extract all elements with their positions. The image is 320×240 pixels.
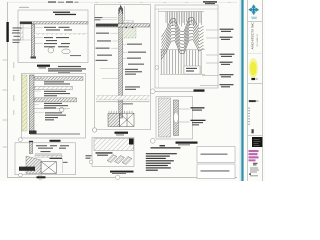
- detail B floor line: [30, 133, 80, 135]
- logo star: [248, 4, 259, 15]
- detail D title scale: [116, 134, 124, 137]
- detail A box: [18, 10, 88, 63]
- stamp box 2 text: [201, 170, 230, 171]
- detail E top-right label: [203, 1, 217, 4]
- detail G left labels: [86, 155, 92, 159]
- teal line halo: [240, 0, 242, 181]
- detail E label box: [184, 66, 200, 74]
- detail E title text: [194, 89, 205, 91]
- detail A top labels: [53, 12, 76, 16]
- pink sheet title rows: [249, 150, 259, 161]
- detail A title scale: [39, 67, 47, 68]
- detail D bolts: [126, 27, 134, 29]
- detail B sheathing: [22, 75, 27, 131]
- detail A column: [31, 24, 34, 58]
- detail A ceiling hatch: [35, 34, 88, 35]
- detail D roof dark run: [96, 24, 118, 27]
- detail E vertical planks: [161, 50, 201, 74]
- detail B base angle: [29, 131, 37, 135]
- detail B balloon: [59, 107, 64, 112]
- detail F arc: [174, 112, 179, 123]
- detail B leaders: [34, 79, 44, 113]
- detail E divider: [160, 49, 205, 51]
- detail F wall hatch: [159, 98, 171, 137]
- detail D roof band: [96, 24, 150, 27]
- detail B labels row group 4: [45, 112, 66, 120]
- bottom frame hole circle 2: [116, 175, 120, 179]
- detail G deck hatch: [94, 139, 134, 151]
- frame left line: [7, 2, 9, 178]
- notes rows: [146, 153, 177, 171]
- detail D sill hatch: [108, 113, 120, 126]
- detail A left labels: [12, 27, 22, 43]
- detail D column: [119, 8, 123, 118]
- detail C mid labels: [50, 158, 63, 159]
- stamp box 2: [197, 164, 235, 179]
- detail G title scale: [112, 172, 126, 175]
- detail D x-panel: [120, 113, 135, 126]
- title strip left edge: [247, 0, 249, 181]
- gray tail: [255, 79, 258, 80]
- divider 2: [248, 53, 263, 55]
- detail B title: [50, 140, 61, 142]
- detail C balloon top: [19, 138, 23, 142]
- detail C top labels: [36, 145, 69, 152]
- project name tail: [256, 101, 259, 102]
- stamp box 1: [197, 147, 235, 163]
- title strip right edge: [261, 0, 263, 181]
- detail G pipe 1: [107, 155, 117, 163]
- divider 3: [248, 82, 263, 84]
- svg-text:1200 MAIN ST: 1200 MAIN ST: [256, 33, 259, 47]
- detail C beam 2: [35, 155, 62, 157]
- black info box: [252, 137, 263, 147]
- detail B labels row group 1: [44, 81, 70, 84]
- detail G dark end: [129, 139, 134, 145]
- detail D fastener ticks: [109, 111, 132, 113]
- detail F leader lines: [179, 109, 190, 122]
- dark vertical dash: [252, 129, 254, 133]
- detail F box: [156, 97, 193, 140]
- detail C column cap: [29, 141, 33, 142]
- detail D wall face line: [124, 6, 126, 24]
- detail A leaders: [23, 27, 43, 43]
- detail F title scale: [178, 143, 190, 146]
- detail E title balloon: [150, 89, 155, 94]
- detail E leader lines: [200, 30, 219, 86]
- footer dark dot: [249, 173, 251, 175]
- detail C dim line: [62, 158, 64, 173]
- detail A roof band: [20, 22, 88, 24]
- detail E right labels: [220, 29, 235, 88]
- detail C dim text: [63, 162, 68, 163]
- detail E bottom line: [160, 73, 205, 75]
- detail D leaders: [111, 33, 128, 58]
- detail D balloon: [92, 128, 96, 132]
- detail B labels row group 3: [44, 103, 68, 109]
- yellow highlight: [250, 62, 256, 76]
- black dash below yellow: [251, 78, 255, 80]
- detail D right labels: [123, 44, 146, 105]
- left margin faint text: [13, 62, 14, 115]
- detail D top-left leader text: [95, 17, 103, 20]
- detail C hatch wedge: [26, 156, 41, 174]
- gray footer rows: [250, 168, 259, 177]
- detail D parapet strip: [124, 21, 134, 23]
- detail C dark sill: [19, 167, 35, 171]
- detail D floor lines: [96, 96, 150, 102]
- detail E inner left line: [158, 9, 160, 88]
- sheet background: [0, 0, 265, 181]
- detail E balloon: [155, 66, 159, 70]
- detail F labels: [191, 107, 206, 125]
- notes subheading: [151, 147, 181, 148]
- top frame ticks: [95, 1, 231, 4]
- detail C beam: [35, 153, 62, 155]
- divider 4: [248, 135, 263, 137]
- detail G labels: [96, 152, 113, 156]
- detail A parapet: [21, 24, 24, 40]
- project name dark mark: [249, 100, 256, 102]
- detail D floor hatch: [96, 96, 150, 100]
- detail D column top chevrons: [119, 6, 123, 15]
- detail G title: [110, 171, 134, 173]
- detail A title: [37, 65, 50, 67]
- detail G balloon: [89, 160, 93, 164]
- detail D left labels: [96, 33, 113, 61]
- detail B band 3: [34, 98, 76, 102]
- detail F stud: [174, 100, 179, 136]
- detail D lower leaders: [100, 69, 125, 79]
- detail E wood grain fibres: [166, 12, 202, 27]
- detail C x-brace box: [41, 162, 56, 174]
- stamp box 1 text: [201, 154, 228, 155]
- yellow highlight halo: [249, 58, 258, 78]
- detail A roof dark run: [20, 22, 32, 24]
- detail G pipe 2: [115, 156, 125, 164]
- detail G pipe 3: [122, 157, 132, 165]
- detail D title: [115, 132, 129, 134]
- left frame ticks: [3, 60, 8, 148]
- svg-text:ARCHITECTS INC: ARCHITECTS INC: [251, 21, 255, 49]
- notes heading: [160, 145, 166, 146]
- frame bottom line: [7, 176, 237, 178]
- detail G box: [92, 138, 134, 167]
- general note rows: [48, 66, 86, 73]
- detail B band 1: [34, 77, 83, 81]
- detail B shelf lines: [33, 108, 70, 110]
- divider 1: [248, 21, 263, 23]
- black info box text: [254, 139, 261, 146]
- detail C box: [15, 143, 76, 175]
- detail E grain wave layers: [162, 18, 204, 60]
- frame top line: [7, 1, 237, 3]
- detail A right labels: [44, 27, 81, 56]
- detail C title: [37, 176, 46, 178]
- detail F title: [176, 142, 198, 144]
- bottom frame hole circle 1: [38, 175, 42, 179]
- detail E inner top line: [155, 8, 218, 10]
- detail E wood grain top line: [159, 10, 205, 12]
- detail D green hatch block: [123, 28, 137, 38]
- detail F balloon: [150, 138, 155, 143]
- detail A balloon: [48, 47, 54, 53]
- top header dashes: [48, 1, 79, 2]
- detail B band 2: [34, 87, 72, 90]
- detail C balloon bottom: [19, 173, 23, 177]
- detail D top-left leader lines: [101, 18, 118, 20]
- detail C column: [30, 142, 33, 154]
- small dark text: [253, 163, 258, 166]
- detail D box: [95, 5, 151, 130]
- detail A keyplan note: [19, 7, 29, 8]
- detail B labels row group 2: [44, 91, 70, 96]
- detail E title line: [155, 90, 204, 92]
- detail B stud: [30, 75, 35, 132]
- detail E label box text: [186, 68, 197, 72]
- left frame black bar: [6, 22, 8, 42]
- logo caption: [251, 17, 257, 19]
- detail E box: [155, 5, 218, 88]
- teal accent line: [241, 0, 243, 181]
- detail A oval tag: [62, 49, 70, 54]
- detail B box: [21, 74, 85, 139]
- revision small marks: [248, 108, 250, 125]
- detail A column base: [31, 57, 37, 59]
- detail A ceiling line: [35, 33, 88, 35]
